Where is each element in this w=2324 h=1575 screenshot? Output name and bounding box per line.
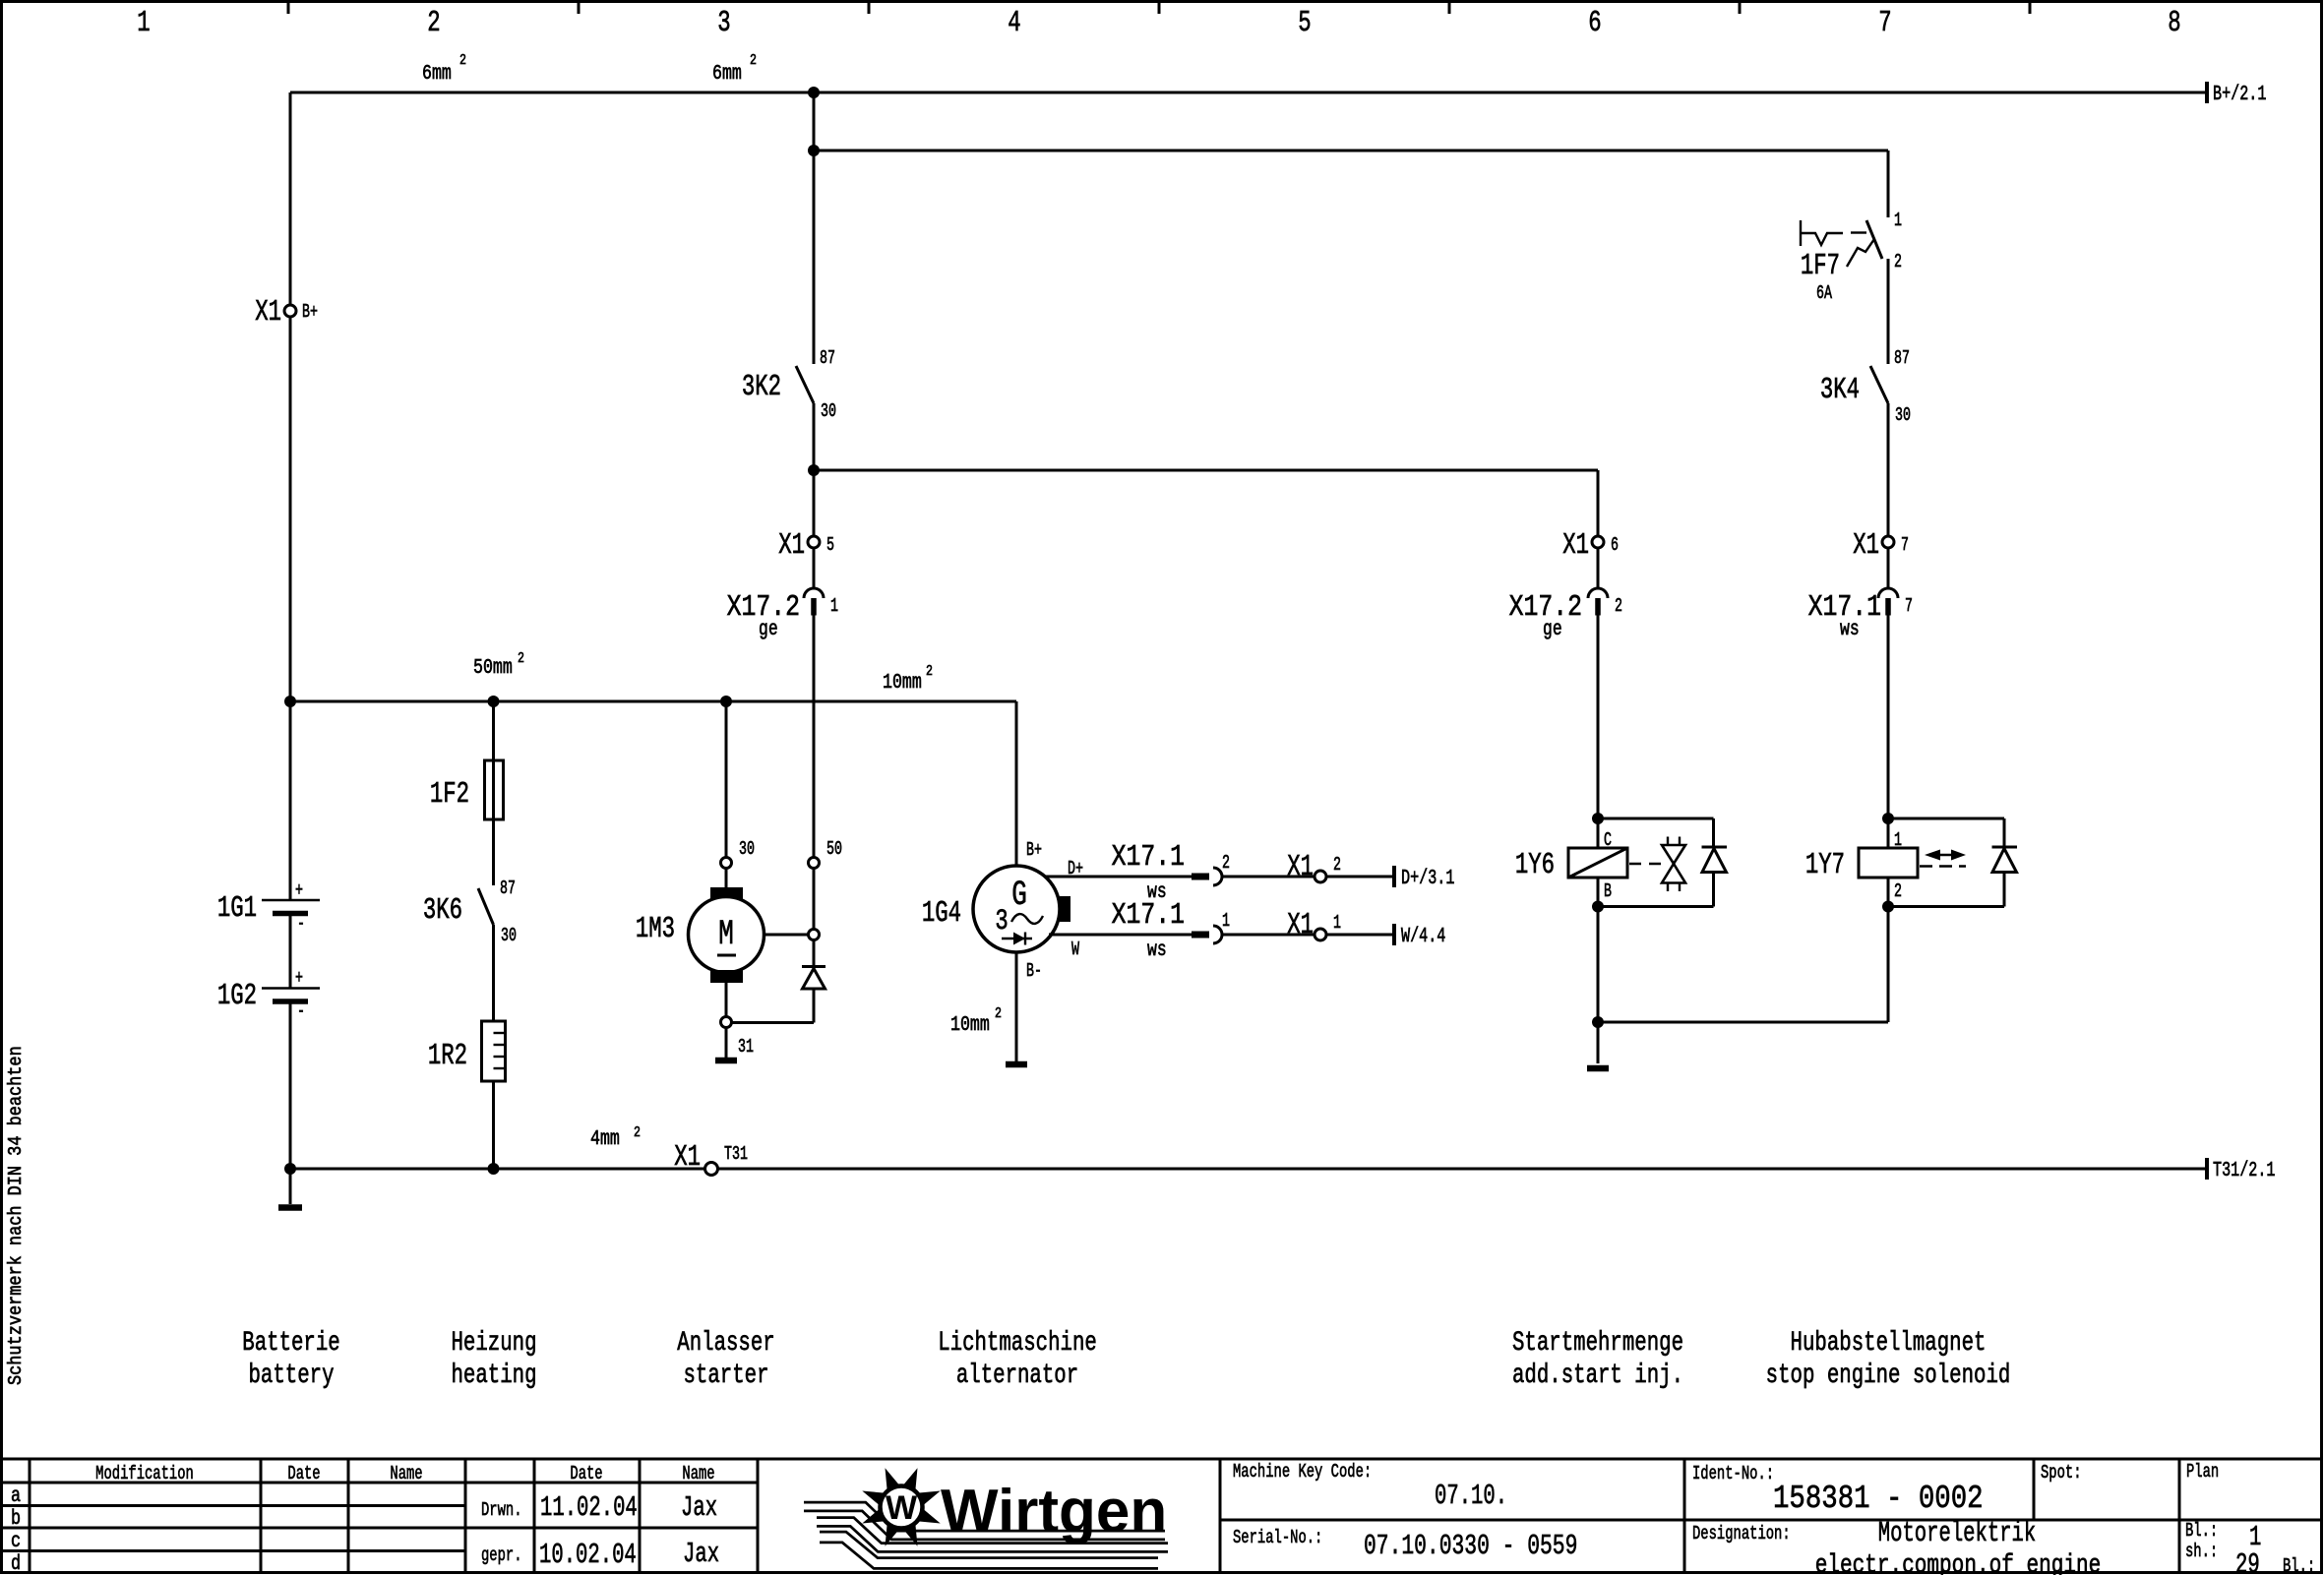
svg-text:sh.:: sh.: [2185,1542,2218,1563]
node junction 1Y7 top [1882,813,1894,824]
connector X17.2 pin 2 [1509,588,1622,641]
svg-text:ws: ws [1840,617,1860,641]
wire W from alternator [1049,934,1192,937]
title block grid [3,1459,2322,1573]
wire X1:5 to connector [813,548,816,588]
svg-text:3K2: 3K2 [742,371,781,404]
relay contact 3K6 [423,878,517,946]
wire 3K6 to 1R2 [492,925,495,1021]
valve symbol (injector) [1662,837,1685,892]
svg-text:X1: X1 [1562,529,1589,563]
svg-text:b: b [11,1506,21,1530]
node junction ground rail [1592,1016,1604,1028]
svg-text:Ident-No.:: Ident-No.: [1692,1464,1774,1485]
svg-text:10mm: 10mm [950,1012,990,1036]
svg-text:X17.1: X17.1 [1112,841,1185,875]
wire alternator B+ drop [1015,701,1018,866]
diode (starter suppression) [802,967,826,1023]
svg-text:Date: Date [570,1464,602,1485]
wire X17.2:2 down to 1Y6 [1597,616,1600,849]
terminal X1:B+ [255,296,318,330]
wire 1G1 to 1G2 [289,916,292,988]
svg-text:D+: D+ [1068,858,1083,879]
svg-text:+: + [295,879,303,901]
terminal X1:1 [1287,909,1341,942]
svg-text:d: d [11,1551,21,1575]
svg-text:Anlasser: Anlasser [677,1327,774,1359]
svg-text:7: 7 [1905,595,1913,617]
svg-text:ws: ws [1147,938,1167,962]
svg-text:2: 2 [1222,852,1230,874]
wire bus 50mm2 [290,700,1016,703]
svg-text:Jax: Jax [683,1538,719,1570]
connector X17.1 pin 2 (D+) [1112,841,1230,904]
wire label 6mm2 (right) [712,52,757,86]
wire branch to column 6 [814,470,1598,536]
wire 50-node to diode [813,940,816,966]
caption Anlasser/starter [677,1327,774,1391]
battery 1G2 [217,967,320,1022]
connector X17.2 pin 1 [727,588,838,641]
svg-text:Motorelektrik: Motorelektrik [1878,1517,2036,1549]
svg-text:7: 7 [1878,7,1891,40]
svg-text:battery: battery [248,1360,334,1391]
svg-text:1: 1 [1333,912,1341,934]
svg-text:alternator: alternator [956,1360,1078,1391]
caption Lichtmaschine/alternator [938,1327,1097,1391]
terminal X1:2 [1287,851,1341,884]
wire bus B+ (net B+/2.1) [290,82,2207,103]
wire X1:2 to net D+/3.1 [1326,866,1394,887]
Wirtgen logo swoosh band 1 [804,1507,1165,1536]
svg-text:Heizung: Heizung [451,1327,536,1359]
svg-text:G: G [1011,877,1027,916]
svg-text:2: 2 [459,52,466,69]
svg-text:B-: B- [1026,960,1042,982]
wire 1Y6 suppression bottom rail [1598,878,1714,907]
svg-text:electr.compon.of engine: electr.compon.of engine [1815,1551,2102,1575]
svg-text:11.02.04: 11.02.04 [540,1491,638,1524]
relay contact 3K4 [1820,347,1911,536]
svg-text:Hubabstellmagnet: Hubabstellmagnet [1791,1327,1987,1359]
terminal 31 (starter) [721,1017,755,1058]
svg-text:1Y7: 1Y7 [1805,849,1845,882]
wire 1Y7 suppression bottom rail [1888,878,2004,907]
caption Startmehrmenge/add.start inj. [1512,1327,1683,1391]
node junction 3K2 out [808,464,820,476]
Wirtgen logo swoosh band 2 [817,1522,1168,1547]
wire label 10mm2 (B-) [950,1005,1002,1037]
vertical note Schutzvermerk nach DIN 34 beachten [6,1046,27,1385]
svg-text:6: 6 [1588,7,1601,40]
caption Heizung/heating [451,1327,536,1391]
svg-text:1R2: 1R2 [428,1040,467,1073]
terminal X1:T31 [674,1141,748,1176]
svg-text:3: 3 [717,7,730,40]
wire X1:B+ to battery [289,317,292,899]
wire battery feed down from bus1 [289,92,292,305]
Wirtgen logo swoosh band 3 [820,1538,1158,1564]
svg-text:a: a [11,1484,21,1507]
svg-text:Modification: Modification [95,1464,194,1485]
svg-text:add.start inj.: add.start inj. [1512,1360,1683,1391]
svg-text:3: 3 [995,904,1008,938]
wire X17.1:2 to X1:2 [1222,876,1315,878]
svg-text:1: 1 [1222,910,1230,932]
wire label 50mm2 [473,650,524,680]
svg-text:D+/3.1: D+/3.1 [1401,868,1454,890]
svg-text:B+: B+ [1026,839,1042,861]
svg-text:1G2: 1G2 [217,980,257,1013]
svg-text:30: 30 [821,400,836,422]
svg-text:W: W [886,1489,918,1527]
node junction 1Y7 bottom [1882,901,1894,913]
svg-text:-: - [297,913,305,935]
node junction bus50/starter [720,696,732,707]
svg-text:Name: Name [390,1464,422,1485]
wire 3K2 to X1:5 [813,470,816,536]
fuse 1F2 [430,760,504,819]
wire 1Y7 suppression top rail [1888,818,2004,847]
actuator arrows 1Y7 [1920,850,1966,867]
wire 1G2 to bottom bus [289,1003,292,1204]
dashed actuator link 1Y6 [1629,863,1661,865]
node junction bus50/battery [284,696,296,707]
svg-text:Startmehrmenge: Startmehrmenge [1512,1327,1683,1359]
wire 1Y6 to ground node [1597,907,1600,1064]
svg-text:Date: Date [287,1464,320,1485]
svg-text:3K4: 3K4 [1820,374,1860,407]
svg-text:30: 30 [1895,404,1911,426]
svg-text:2: 2 [634,1124,641,1141]
svg-text:2: 2 [1333,854,1341,876]
svg-text:heating: heating [451,1360,536,1391]
connector X17.1 pin 1 (W) [1112,899,1230,962]
svg-text:ge: ge [1543,617,1562,641]
node junction 1Y6 top [1592,813,1604,824]
svg-text:1: 1 [830,595,838,617]
svg-text:2: 2 [1894,251,1902,273]
svg-text:c: c [11,1529,21,1552]
svg-text:4: 4 [1008,7,1020,40]
node junction bus50/heating [488,696,500,707]
solenoid coil 1Y6 [1515,829,1627,902]
wire X17.1:7 down to 1Y7 [1887,616,1890,849]
wire X1:7 to connector [1887,548,1890,588]
wire X17.1:1 to X1:1 [1222,934,1315,937]
wire label 10mm2 (bus) [883,663,933,695]
svg-text:1F2: 1F2 [430,778,469,812]
ground starter [715,1058,737,1064]
svg-text:Designation:: Designation: [1692,1524,1791,1545]
svg-text:2: 2 [518,650,524,667]
wire ground rail to 1Y7 [1598,907,1888,1023]
svg-text:87: 87 [820,347,835,369]
alternator 1G4 [922,839,1070,982]
svg-text:6A: 6A [1816,282,1832,304]
column numbers 1-8 [137,7,2180,40]
svg-text:30: 30 [739,838,755,860]
motor 1M3 (starter) [636,869,764,1016]
diode 1Y6 suppression [1702,847,1728,907]
svg-text:1G1: 1G1 [217,892,257,926]
svg-text:2: 2 [427,7,440,40]
svg-text:7: 7 [1901,534,1909,556]
svg-text:B+: B+ [302,301,318,323]
svg-text:07.10.0330 - 0559: 07.10.0330 - 0559 [1364,1530,1577,1562]
svg-text:2: 2 [1615,595,1622,617]
circuit breaker 1F7 [1801,210,1902,304]
svg-text:Lichtmaschine: Lichtmaschine [938,1327,1097,1359]
terminal X1:7 [1853,529,1909,563]
wire heating drop [492,701,495,885]
svg-text:C: C [1604,829,1612,851]
svg-text:ge: ge [759,617,778,641]
wire X1:6 to connector [1597,548,1600,588]
svg-text:X1: X1 [1287,851,1314,884]
wire starter 30 drop [725,701,728,857]
svg-text:07.10.: 07.10. [1435,1480,1507,1512]
wire X17.2:1 down to starter 50 [813,616,816,858]
svg-text:5: 5 [1298,7,1311,40]
wire label 6mm2 (left) [422,52,466,86]
node junction 1Y6 bottom [1592,901,1604,913]
svg-text:6mm: 6mm [712,61,742,85]
wire label 4mm2 [590,1124,641,1151]
wire 1Y6 suppression top rail [1598,818,1714,847]
svg-text:1Y6: 1Y6 [1515,849,1555,882]
node junction bus1/col3 [808,87,820,98]
svg-text:1: 1 [137,7,150,40]
svg-text:Name: Name [682,1464,714,1485]
svg-text:starter: starter [683,1360,768,1391]
svg-text:31: 31 [738,1036,754,1058]
svg-text:2: 2 [995,1005,1002,1022]
svg-text:X1: X1 [1287,909,1314,942]
svg-text:2: 2 [750,52,757,69]
svg-text:X1: X1 [778,529,805,563]
diode 1Y7 suppression [1992,847,2018,907]
svg-text:10.02.04: 10.02.04 [539,1539,637,1571]
svg-text:B+/2.1: B+/2.1 [2213,84,2266,106]
wire alternator B- to ground [1015,952,1018,1061]
wire D+ from alternator [1044,876,1192,878]
svg-text:87: 87 [500,878,516,899]
svg-text:6: 6 [1611,534,1619,556]
svg-text:158381 - 0002: 158381 - 0002 [1773,1482,1984,1518]
svg-text:50: 50 [826,838,842,860]
svg-text:Spot:: Spot: [2041,1463,2082,1484]
relay contact 3K2 [742,151,836,470]
column ruler ticks [288,3,2030,14]
svg-text:X1: X1 [674,1141,701,1175]
connector X17.1 pin 7 [1808,588,1913,641]
terminal X1:6 [1562,529,1619,563]
svg-text:X1: X1 [255,296,281,330]
terminal 50 (starter solenoid) [809,838,842,869]
solenoid coil 1Y7 [1805,829,1918,902]
svg-text:1: 1 [1894,210,1902,231]
svg-text:Schutzvermerk nach DIN 34 beac: Schutzvermerk nach DIN 34 beachten [6,1046,27,1385]
svg-text:Bl.:: Bl.: [2185,1521,2218,1543]
battery 1G1 [217,879,320,935]
svg-text:+: + [295,967,303,989]
wire solenoid 50 down [813,869,816,929]
svg-text:50mm: 50mm [473,655,513,679]
node junction heating/bus T31 [488,1163,500,1175]
svg-text:30: 30 [501,925,517,946]
svg-text:Plan: Plan [2186,1462,2219,1484]
terminal X1:5 [778,529,834,563]
terminal 30 (starter) [721,838,755,869]
svg-text:5: 5 [826,534,834,556]
svg-text:10mm: 10mm [883,670,922,694]
svg-text:4mm: 4mm [590,1126,620,1150]
resistor 1R2 (heating element) [428,1021,506,1081]
wire 31 node to diode branch [732,1021,814,1024]
node junction bus2/col3 [808,145,820,156]
svg-text:-: - [297,1000,305,1022]
node motor tap on 50 line [764,930,820,940]
svg-text:M: M [718,916,734,955]
svg-text:stop engine solenoid: stop engine solenoid [1766,1360,2011,1391]
svg-text:Batterie: Batterie [242,1327,339,1359]
ground battery [278,1204,302,1211]
ground 1Y6 [1587,1065,1609,1072]
svg-text:1G4: 1G4 [922,897,961,931]
svg-text:1M3: 1M3 [636,913,675,946]
svg-text:1: 1 [1894,829,1902,851]
svg-text:Bl.:: Bl.: [2283,1556,2315,1575]
svg-text:Jax: Jax [681,1491,717,1524]
wire 1R2 to bus T31 [492,1081,495,1169]
wire bus T31 [290,1158,2207,1180]
caption Hubabstellmagnet/stop engine solenoid [1766,1327,2011,1391]
svg-text:2: 2 [1894,880,1902,902]
svg-text:W: W [1071,939,1079,960]
svg-text:W/4.4: W/4.4 [1401,926,1445,948]
wire 31 to ground [725,1028,728,1058]
svg-text:87: 87 [1894,347,1910,369]
svg-text:Machine Key Code:: Machine Key Code: [1233,1462,1372,1484]
svg-text:T31: T31 [724,1143,748,1165]
node junction battery/bus T31 [284,1163,296,1175]
wire 1F7 to 3K4 [1887,259,1890,364]
svg-text:3K6: 3K6 [423,894,462,928]
Wirtgen logo gear [862,1468,940,1545]
wire bus 2 [814,92,1888,217]
svg-text:8: 8 [2168,7,2180,40]
wire X1:1 to net W/4.4 [1326,924,1394,945]
caption Batterie/battery [242,1327,339,1391]
svg-text:B: B [1604,880,1612,902]
svg-text:X1: X1 [1853,529,1879,563]
svg-text:Drwn.: Drwn. [481,1500,522,1522]
svg-text:Serial-No.:: Serial-No.: [1233,1528,1322,1549]
svg-text:29: 29 [2235,1548,2260,1575]
svg-text:Wirtgen: Wirtgen [941,1478,1167,1545]
svg-text:T31/2.1: T31/2.1 [2213,1160,2275,1182]
svg-text:6mm: 6mm [422,61,452,85]
svg-text:X17.1: X17.1 [1112,899,1185,933]
svg-text:1F7: 1F7 [1801,250,1840,283]
svg-text:gepr.: gepr. [481,1545,522,1567]
ground alternator [1006,1061,1027,1068]
svg-text:2: 2 [926,663,933,680]
